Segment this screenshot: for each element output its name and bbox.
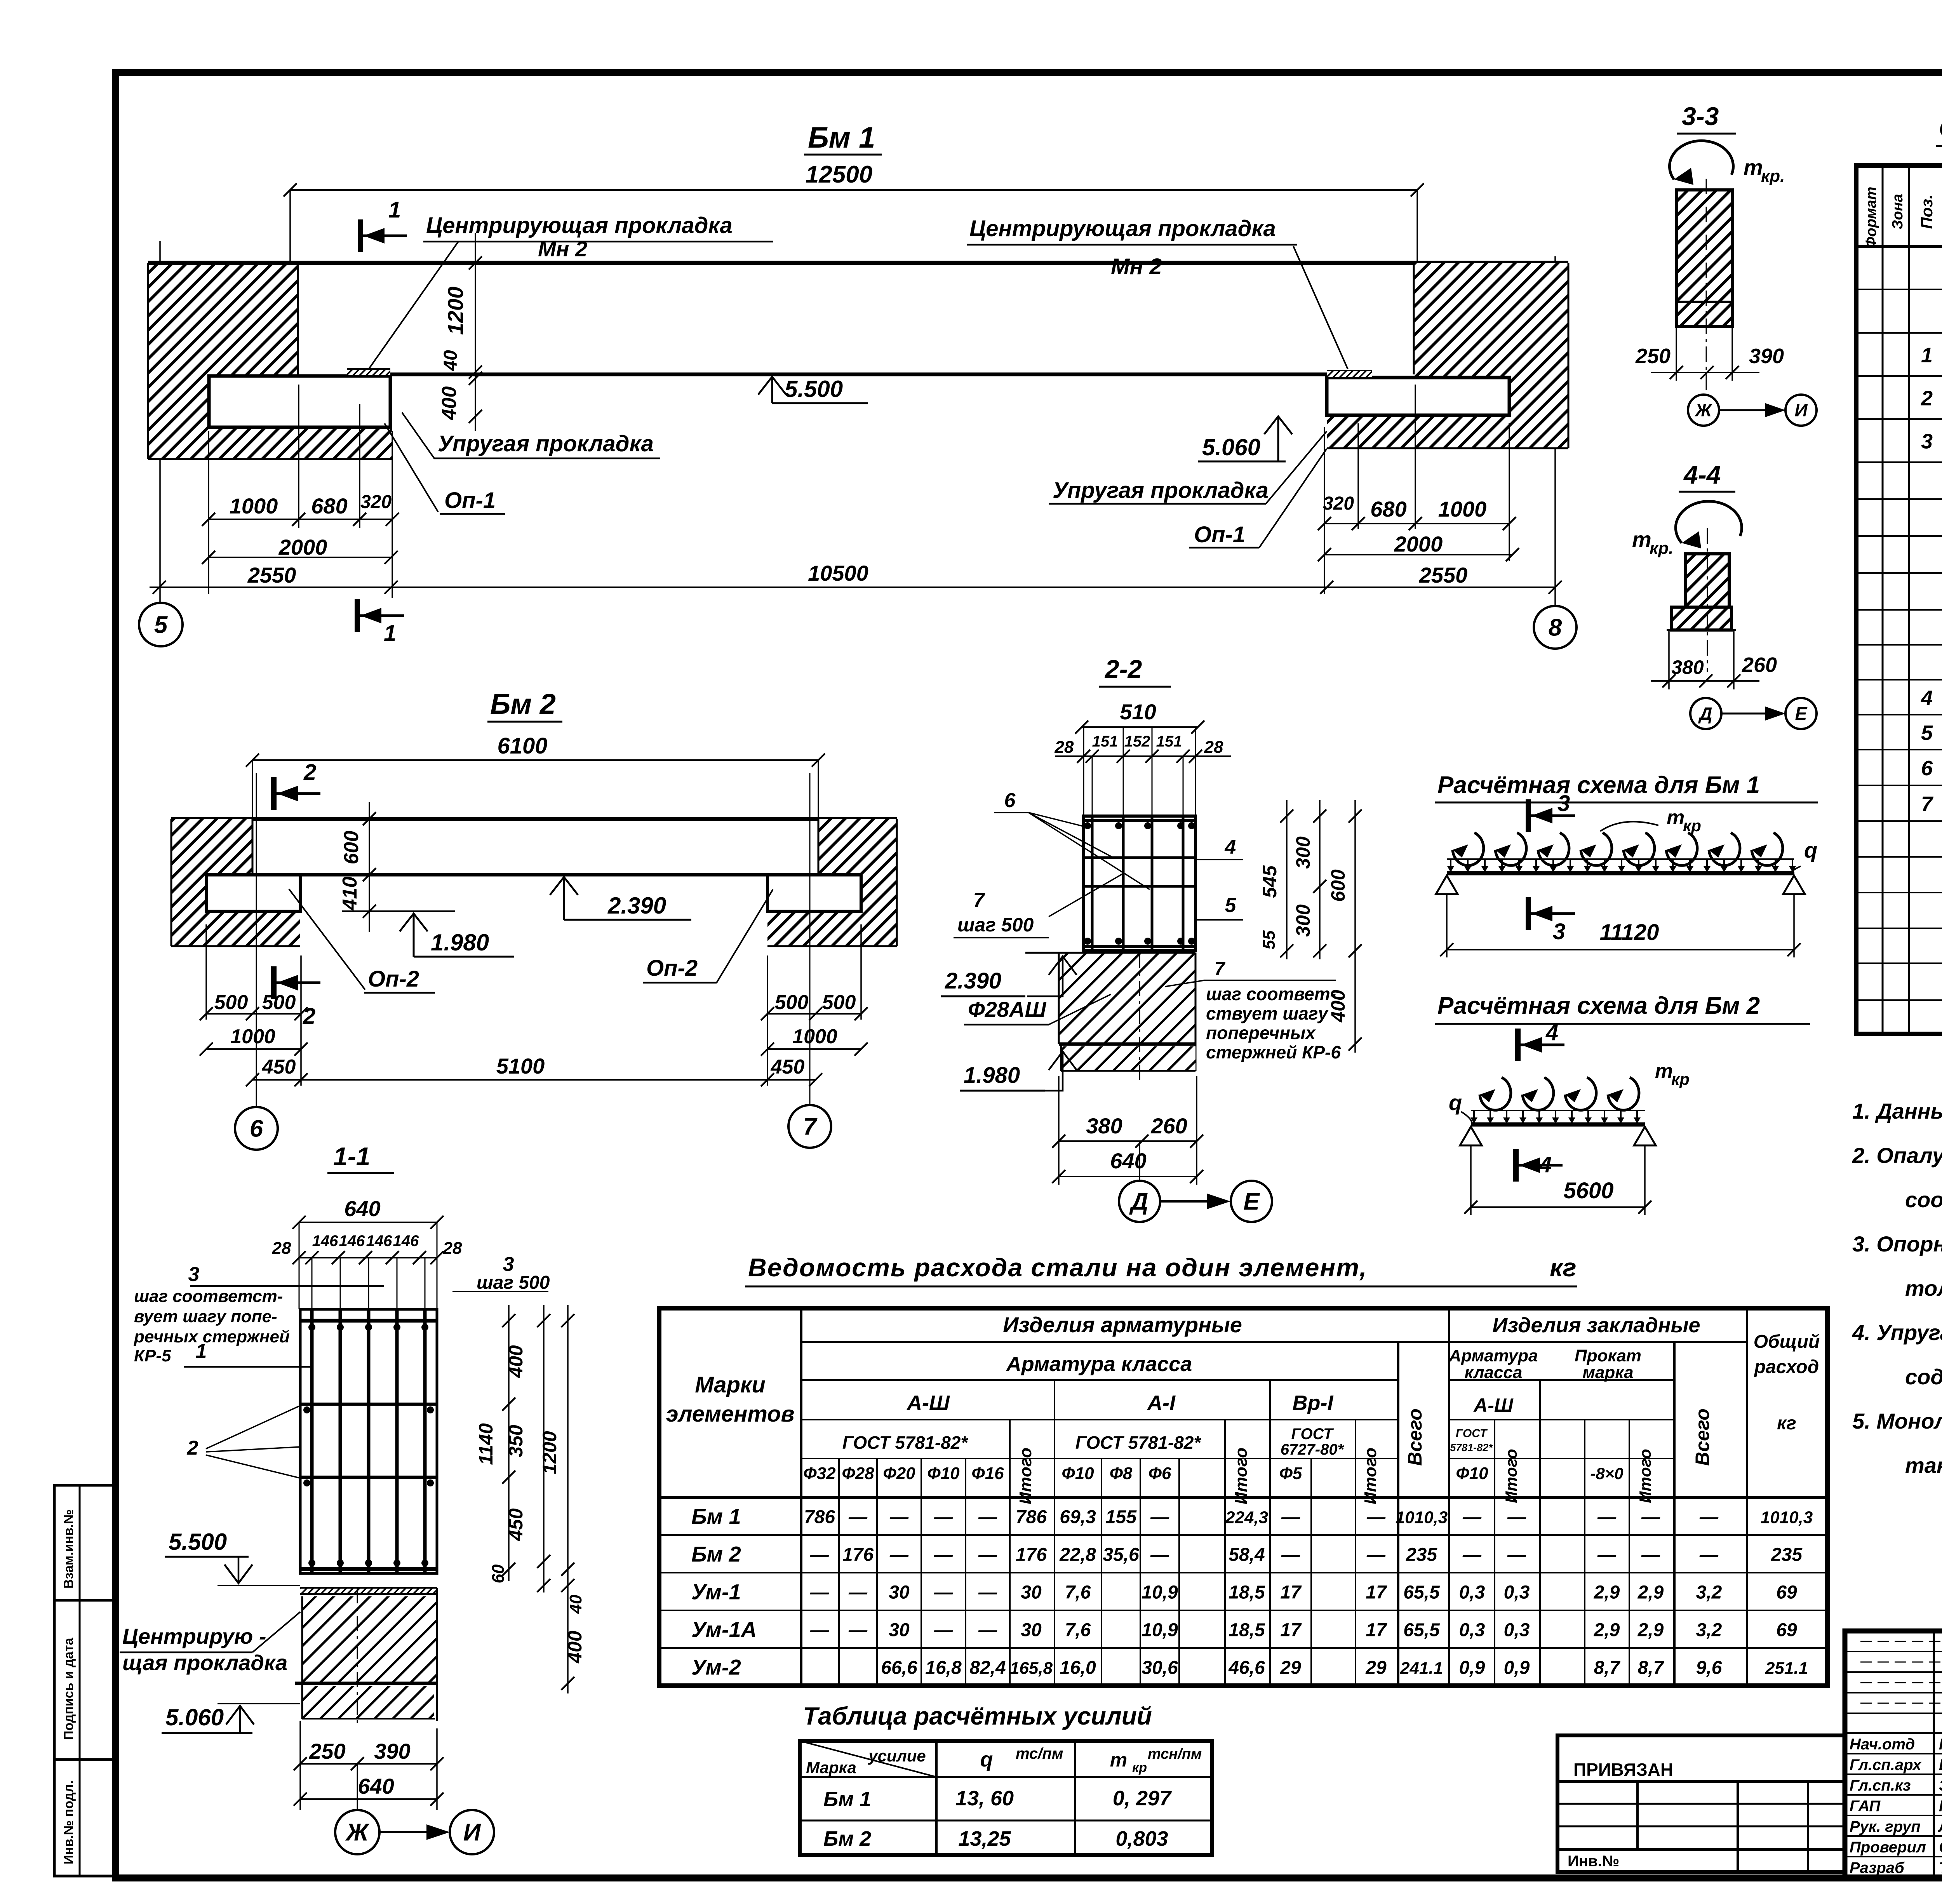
- svg-text:680: 680: [311, 494, 347, 518]
- svg-text:2,9: 2,9: [1637, 1620, 1664, 1641]
- svg-text:Формат: Формат: [1863, 187, 1879, 249]
- svg-text:400: 400: [505, 1345, 527, 1378]
- svg-text:1000: 1000: [1438, 497, 1487, 521]
- svg-text:щая прокладка: щая прокладка: [122, 1650, 287, 1675]
- level mark 5.060 right: [1264, 416, 1292, 434]
- svg-text:Центрирую -: Центрирую -: [122, 1624, 266, 1648]
- beam Бм1 soffit: [347, 372, 1368, 376]
- svg-text:q: q: [1449, 1090, 1462, 1115]
- svg-text:8,7: 8,7: [1638, 1658, 1665, 1678]
- svg-text:кр: кр: [1671, 1070, 1690, 1088]
- svg-text:Е: Е: [1795, 703, 1808, 724]
- svg-text:66,6: 66,6: [881, 1658, 917, 1678]
- svg-text:3,2: 3,2: [1696, 1620, 1722, 1641]
- distributed load band Бм2: [1471, 1110, 1645, 1111]
- support right scheme1: [1783, 875, 1805, 894]
- wall left hatch upper: [148, 263, 298, 376]
- svg-text:2: 2: [303, 760, 316, 785]
- svg-text:5100: 5100: [496, 1054, 545, 1078]
- svg-text:9,6: 9,6: [1696, 1658, 1722, 1678]
- centering pad section 1-1: [300, 1588, 437, 1594]
- beam Бм1 top chord: [148, 261, 1568, 265]
- svg-text:ПРИВЯЗАН: ПРИВЯЗАН: [1573, 1760, 1673, 1780]
- svg-text:элементов: элементов: [666, 1401, 794, 1427]
- svg-text:Ведомость расхода стали на: Ведомость расхода стали на один элемент,: [748, 1253, 1367, 1282]
- svg-text:Ф16: Ф16: [971, 1464, 1004, 1483]
- svg-text:Центрирующая прокладка: Центрирующая прокладка: [969, 216, 1276, 241]
- svg-text:Д: Д: [1698, 703, 1712, 724]
- wall Бм2 right hatch under plate: [767, 911, 861, 946]
- svg-text:30: 30: [889, 1620, 910, 1641]
- svg-text:5: 5: [1921, 721, 1933, 745]
- svg-text:—: —: [1462, 1507, 1482, 1528]
- svg-text:18,5: 18,5: [1229, 1620, 1265, 1641]
- axis line 6: [256, 773, 257, 1106]
- svg-text:—: —: [810, 1582, 829, 1603]
- svg-text:Семенов: Семенов: [1939, 1839, 1942, 1856]
- svg-text:380: 380: [1086, 1114, 1122, 1138]
- svg-text:28: 28: [443, 1239, 462, 1258]
- svg-text:260: 260: [1742, 653, 1777, 677]
- rebar dots: [308, 1324, 315, 1331]
- svg-text:Штейнберг: Штейнберг: [1939, 1756, 1942, 1773]
- svg-text:толщиной 10-12 мм.: толщиной 10-12 мм.: [1905, 1276, 1942, 1300]
- svg-text:16,8: 16,8: [925, 1658, 962, 1678]
- svg-text:176: 176: [1016, 1545, 1047, 1565]
- svg-text:2. Опалубочные, арматурные: 2. Опалубочные, арматурные и бетонные ра…: [1852, 1143, 1942, 1168]
- svg-text:69: 69: [1776, 1620, 1797, 1641]
- svg-text:10,9: 10,9: [1142, 1582, 1178, 1603]
- name rows: [1845, 1753, 1942, 1754]
- svg-text:500: 500: [262, 991, 296, 1014]
- title block small rows: [1845, 1651, 1942, 1652]
- svg-text:5. Монолитные участки Ум-1,: 5. Монолитные участки Ум-1, Ум-1А и Ум-2…: [1852, 1409, 1942, 1433]
- svg-text:65,5: 65,5: [1403, 1582, 1440, 1603]
- svg-text:1: 1: [388, 197, 401, 223]
- svg-text:вует шагу попе-: вует шагу попе-: [134, 1307, 277, 1326]
- svg-text:5.060: 5.060: [165, 1704, 224, 1730]
- moment arrow mkp 3-3: [1670, 141, 1733, 179]
- svg-text:8: 8: [1549, 614, 1562, 641]
- svg-text:—: —: [1281, 1545, 1300, 1565]
- svg-text:2.390: 2.390: [607, 893, 666, 919]
- svg-text:ГОСТ 5781-82*: ГОСТ 5781-82*: [842, 1432, 969, 1453]
- svg-text:Ф32: Ф32: [803, 1464, 836, 1483]
- moment arrow mkp 4-4: [1676, 501, 1742, 543]
- wall Бм2 right hatch upper: [818, 819, 897, 875]
- svg-text:16,0: 16,0: [1060, 1658, 1096, 1678]
- svg-text:3: 3: [1921, 430, 1933, 453]
- support right scheme2: [1634, 1127, 1656, 1145]
- svg-text:—: —: [934, 1545, 953, 1565]
- svg-text:Марки: Марки: [695, 1372, 766, 1398]
- svg-text:-8×0: -8×0: [1590, 1464, 1623, 1483]
- svg-text:марка: марка: [1582, 1363, 1633, 1382]
- vertical dims 600 410: [369, 802, 370, 932]
- svg-text:235: 235: [1771, 1545, 1803, 1565]
- svg-text:410: 410: [339, 877, 361, 911]
- svg-text:кг: кг: [1777, 1413, 1796, 1434]
- svg-text:—: —: [1462, 1545, 1482, 1565]
- left stamp box Подпись и дата: [54, 1600, 115, 1760]
- svg-text:0,9: 0,9: [1459, 1658, 1485, 1678]
- leader to pad left: [368, 242, 458, 370]
- svg-text:3: 3: [1553, 919, 1565, 944]
- svg-text:—: —: [1597, 1545, 1617, 1565]
- svg-text:Ум-1А: Ум-1А: [691, 1617, 757, 1642]
- wall left outline: [147, 263, 149, 459]
- svg-text:Зона: Зона: [1890, 194, 1906, 230]
- svg-text:5.500: 5.500: [169, 1529, 227, 1555]
- dims 545 etc: [1286, 800, 1288, 959]
- right dims 400 350 450 1140 1200: [508, 1305, 510, 1581]
- svg-text:речных стержней: речных стержней: [134, 1327, 290, 1346]
- axis circles Ж И: [357, 1764, 358, 1810]
- svg-text:—: —: [1699, 1507, 1719, 1528]
- svg-text:—: —: [1699, 1545, 1719, 1565]
- svg-text:4: 4: [1225, 836, 1236, 858]
- svg-text:1000: 1000: [230, 1025, 275, 1048]
- svg-text:—: —: [1641, 1545, 1660, 1565]
- svg-text:58,4: 58,4: [1229, 1545, 1265, 1565]
- wall Бм2 left outline: [171, 819, 172, 946]
- svg-text:450: 450: [262, 1056, 296, 1078]
- svg-text:Бм 2: Бм 2: [823, 1827, 871, 1850]
- concrete 2: [1061, 1046, 1195, 1071]
- thick line 2688: [1059, 1043, 1195, 1046]
- support plate Оп-1 right: [1327, 378, 1509, 415]
- wall Бм2 left hatch under plate: [206, 911, 300, 946]
- svg-text:кг: кг: [1550, 1253, 1577, 1282]
- svg-text:250: 250: [1635, 345, 1671, 368]
- svg-text:Центрирующая прокладка: Центрирующая прокладка: [426, 213, 733, 238]
- svg-text:29: 29: [1280, 1658, 1301, 1678]
- svg-text:Поз.: Поз.: [1918, 195, 1936, 229]
- column section 4-4 flange: [1671, 607, 1731, 630]
- svg-text:кр.: кр.: [1650, 539, 1673, 558]
- svg-text:17: 17: [1366, 1582, 1387, 1603]
- svg-text:10500: 10500: [808, 561, 868, 585]
- svg-text:450: 450: [505, 1508, 527, 1541]
- svg-text:320: 320: [1323, 493, 1354, 514]
- svg-text:0,803: 0,803: [1115, 1827, 1168, 1850]
- svg-text:22,8: 22,8: [1059, 1545, 1096, 1565]
- svg-text:3: 3: [1557, 791, 1570, 816]
- svg-text:Вр-I: Вр-I: [1293, 1391, 1334, 1415]
- title block frame: [1845, 1631, 1942, 1878]
- svg-text:4-4: 4-4: [1683, 460, 1721, 489]
- svg-text:300: 300: [1292, 836, 1314, 869]
- svg-text:6: 6: [1004, 789, 1016, 812]
- wall Бм2 right hatch lower: [861, 875, 897, 946]
- svg-text:40: 40: [566, 1594, 585, 1614]
- svg-text:35,6: 35,6: [1103, 1545, 1139, 1565]
- moment curls Бм2: [1480, 1077, 1511, 1110]
- svg-text:ГАП: ГАП: [1850, 1798, 1881, 1815]
- svg-text:Оп-2: Оп-2: [368, 966, 419, 992]
- svg-text:кр: кр: [1132, 1760, 1147, 1775]
- svg-text:640: 640: [358, 1774, 394, 1798]
- svg-text:390: 390: [374, 1739, 410, 1763]
- svg-text:8,7: 8,7: [1594, 1658, 1621, 1678]
- svg-text:ГОСТ: ГОСТ: [1456, 1427, 1488, 1440]
- svg-text:усилие: усилие: [868, 1747, 926, 1765]
- svg-text:0,3: 0,3: [1459, 1582, 1485, 1603]
- svg-text:5: 5: [154, 612, 168, 639]
- svg-text:40: 40: [440, 350, 461, 371]
- svg-text:И: И: [463, 1819, 481, 1846]
- svg-text:3. Опорные плиты укладывать: 3. Опорные плиты укладывать на слое раст…: [1852, 1232, 1942, 1256]
- svg-text:q: q: [1804, 838, 1817, 862]
- svg-text:151: 151: [1156, 733, 1182, 750]
- svg-text:0,3: 0,3: [1504, 1582, 1530, 1603]
- svg-text:2: 2: [187, 1437, 198, 1459]
- axis circle 5: [139, 603, 183, 646]
- svg-text:Ржепишевска: Ржепишевска: [1939, 1798, 1942, 1815]
- axis line 5: [159, 241, 161, 603]
- wall left hatch lower-left: [148, 376, 209, 459]
- svg-text:—: —: [848, 1620, 868, 1641]
- svg-text:Ф5: Ф5: [1279, 1464, 1302, 1483]
- svg-text:кр.: кр.: [1761, 167, 1785, 186]
- svg-text:—: —: [1150, 1545, 1169, 1565]
- svg-text:4: 4: [1921, 686, 1933, 710]
- svg-text:17: 17: [1280, 1582, 1302, 1603]
- svg-text:400: 400: [438, 386, 461, 421]
- section flag 3 bottom scheme: [1526, 897, 1531, 930]
- svg-text:30,6: 30,6: [1142, 1658, 1178, 1678]
- svg-text:300: 300: [1292, 904, 1314, 937]
- svg-text:7: 7: [973, 889, 985, 912]
- concrete block 2: [302, 1686, 434, 1719]
- svg-text:Взам.инв.№: Взам.инв.№: [61, 1509, 76, 1589]
- support plate Оп-1 left: [209, 376, 390, 427]
- svg-text:1010,3: 1010,3: [1396, 1508, 1448, 1527]
- svg-text:7: 7: [803, 1114, 818, 1140]
- section flag 2 top: [271, 777, 277, 810]
- svg-text:содержащих материалов.: содержащих материалов.: [1905, 1364, 1942, 1389]
- svg-text:Ф10: Ф10: [1456, 1464, 1488, 1483]
- arrow Ж to И: [379, 1831, 435, 1833]
- svg-text:7: 7: [1921, 792, 1934, 816]
- svg-text:786: 786: [804, 1507, 835, 1528]
- axis circle 6: [235, 1107, 278, 1150]
- svg-text:1: 1: [384, 621, 396, 646]
- svg-text:7: 7: [1215, 959, 1226, 979]
- wall right outline: [1568, 263, 1570, 448]
- svg-text:Ум-2: Ум-2: [691, 1655, 741, 1679]
- svg-text:Подпись и дата: Подпись и дата: [61, 1637, 76, 1740]
- centerline 2-2: [1139, 953, 1140, 1084]
- svg-text:6100: 6100: [497, 733, 547, 759]
- cage horizontal bars: [300, 1319, 437, 1323]
- centering pad Мн2 left: [347, 369, 390, 375]
- support left scheme1: [1436, 875, 1458, 894]
- svg-text:28: 28: [1055, 738, 1074, 757]
- svg-text:—: —: [934, 1620, 953, 1641]
- svg-text:165,8: 165,8: [1010, 1659, 1053, 1678]
- svg-text:320: 320: [360, 492, 392, 512]
- beam Бм2 soffit: [206, 873, 861, 877]
- svg-text:Гл.сп.кз: Гл.сп.кз: [1850, 1777, 1911, 1794]
- svg-text:Расчётная схема для Бм 2: Расчётная схема для Бм 2: [1437, 992, 1760, 1019]
- svg-text:250: 250: [309, 1739, 345, 1763]
- axis circle 7: [788, 1105, 831, 1148]
- svg-text:—: —: [848, 1582, 868, 1603]
- axis line 8: [1554, 256, 1556, 605]
- svg-text:—: —: [889, 1545, 909, 1565]
- svg-text:Нач.отд: Нач.отд: [1850, 1736, 1915, 1753]
- svg-text:Спецификация монолитных бало: Спецификация монолитных балок: [1939, 115, 1942, 142]
- centering pad Мн2 right: [1327, 371, 1372, 377]
- svg-text:Бм 2: Бм 2: [691, 1542, 741, 1566]
- svg-text:241.1: 241.1: [1400, 1659, 1443, 1678]
- svg-text:1200: 1200: [539, 1431, 560, 1474]
- svg-text:Оп-2: Оп-2: [646, 955, 698, 981]
- axis circles Д Е section 2-2: [1139, 1141, 1140, 1182]
- svg-text:m: m: [1667, 806, 1684, 829]
- svg-text:класса: класса: [1465, 1363, 1523, 1382]
- axis circles Ж И 3-3: [1688, 395, 1719, 426]
- support plate Оп-2 left: [206, 875, 300, 911]
- svg-text:Ж: Ж: [345, 1819, 370, 1846]
- svg-text:18,5: 18,5: [1229, 1582, 1265, 1603]
- svg-text:151: 151: [1092, 733, 1118, 750]
- svg-text:12500: 12500: [806, 161, 872, 188]
- svg-text:—: —: [810, 1545, 829, 1565]
- svg-text:69,3: 69,3: [1060, 1507, 1096, 1528]
- svg-text:—: —: [1366, 1507, 1386, 1528]
- svg-text:m: m: [1632, 527, 1651, 552]
- svg-text:5600: 5600: [1563, 1178, 1613, 1203]
- svg-text:—: —: [978, 1582, 997, 1603]
- svg-text:1140: 1140: [475, 1423, 497, 1465]
- moment curls Бм1: [1453, 833, 1484, 865]
- support left scheme2: [1460, 1127, 1482, 1145]
- section flag 1 top: [358, 219, 363, 252]
- vedomost frame: [659, 1308, 1827, 1686]
- svg-text:Изделия арматурные: Изделия арматурные: [1003, 1312, 1242, 1337]
- svg-text:Арматура: Арматура: [1449, 1346, 1538, 1365]
- svg-text:Разраб: Разраб: [1850, 1859, 1905, 1876]
- beam line Бм1 scheme: [1447, 871, 1794, 875]
- svg-text:2: 2: [303, 1004, 315, 1029]
- svg-text:30: 30: [1021, 1620, 1042, 1641]
- svg-text:m: m: [1110, 1749, 1127, 1771]
- svg-text:—: —: [1366, 1545, 1386, 1565]
- svg-text:Мн 2: Мн 2: [538, 237, 587, 261]
- svg-text:500: 500: [214, 991, 248, 1014]
- svg-text:235: 235: [1406, 1545, 1437, 1565]
- svg-text:6: 6: [250, 1116, 263, 1142]
- svg-text:Таблица расчётных усилий: Таблица расчётных усилий: [803, 1702, 1152, 1730]
- svg-text:0,3: 0,3: [1504, 1620, 1530, 1641]
- svg-text:—: —: [889, 1507, 909, 1528]
- svg-text:680: 680: [1370, 497, 1406, 521]
- svg-text:—: —: [978, 1620, 997, 1641]
- svg-text:ствует шагу: ствует шагу: [1206, 1003, 1329, 1023]
- svg-text:Итого: Итого: [1502, 1449, 1520, 1503]
- svg-text:шаг 500: шаг 500: [477, 1272, 550, 1293]
- concrete block under pad: [302, 1596, 436, 1683]
- svg-text:28: 28: [272, 1239, 291, 1258]
- svg-text:5: 5: [1225, 894, 1237, 917]
- svg-text:Ф20: Ф20: [883, 1464, 915, 1483]
- svg-text:Общий: Общий: [1754, 1331, 1820, 1352]
- svg-text:1: 1: [196, 1340, 207, 1363]
- svg-text:7,6: 7,6: [1065, 1620, 1091, 1641]
- axis line 7: [809, 773, 811, 1104]
- svg-text:5.060: 5.060: [1202, 434, 1260, 460]
- svg-text:545: 545: [1259, 865, 1281, 898]
- usiliy diag header: [800, 1741, 936, 1777]
- wall right hatch upper: [1414, 263, 1568, 378]
- svg-text:расход: расход: [1754, 1357, 1819, 1377]
- svg-text:—: —: [934, 1507, 953, 1528]
- vedomost horizontals: [801, 1341, 1747, 1343]
- svg-text:Ж: Ж: [1695, 400, 1713, 420]
- thick line 4334: [295, 1682, 437, 1685]
- svg-text:17: 17: [1280, 1620, 1302, 1641]
- svg-text:кр: кр: [1683, 816, 1701, 835]
- wall Бм2 left hatch upper: [171, 819, 252, 875]
- svg-text:Захарченко: Захарченко: [1939, 1777, 1942, 1794]
- svg-text:2000: 2000: [278, 535, 327, 559]
- section flag 4 bottom scheme2: [1513, 1149, 1519, 1182]
- svg-text:—: —: [978, 1507, 997, 1528]
- svg-text:КР-5: КР-5: [134, 1346, 171, 1365]
- vertical dim 1200/40/400: [475, 233, 476, 431]
- svg-text:И: И: [1794, 400, 1808, 420]
- section flag 2 bottom: [271, 966, 277, 999]
- svg-text:2.390: 2.390: [945, 968, 1001, 994]
- svg-text:А-Ш: А-Ш: [1473, 1394, 1514, 1416]
- svg-text:152: 152: [1124, 733, 1150, 750]
- svg-text:Прокат: Прокат: [1575, 1346, 1641, 1365]
- svg-text:2550: 2550: [1419, 563, 1468, 587]
- svg-text:Тушко: Тушко: [1939, 1859, 1942, 1876]
- svg-text:13,25: 13,25: [958, 1827, 1011, 1850]
- beam line Бм2 scheme: [1471, 1123, 1645, 1127]
- svg-text:Мн 2: Мн 2: [1111, 254, 1162, 279]
- svg-text:Всего: Всего: [1404, 1408, 1426, 1466]
- svg-text:—: —: [1507, 1545, 1526, 1565]
- left stamp box Взам.инв.№: [54, 1485, 115, 1600]
- svg-text:400: 400: [564, 1631, 586, 1664]
- svg-text:2: 2: [1921, 387, 1933, 410]
- svg-text:—: —: [1150, 1507, 1169, 1528]
- svg-text:1200: 1200: [443, 287, 468, 335]
- svg-text:146: 146: [393, 1232, 419, 1250]
- svg-text:146: 146: [339, 1232, 365, 1250]
- wall Бм2 right outline: [896, 819, 898, 946]
- svg-text:4: 4: [1545, 1020, 1558, 1045]
- svg-text:1000: 1000: [792, 1025, 837, 1048]
- spec table header row: [1856, 245, 1942, 248]
- rebar cage section 1-1: [300, 1309, 437, 1573]
- centerline section 1-1: [357, 1588, 358, 1726]
- svg-text:1.980: 1.980: [964, 1063, 1020, 1088]
- svg-text:786: 786: [1016, 1507, 1047, 1528]
- svg-text:2-2: 2-2: [1104, 654, 1142, 683]
- beam Бм2 top chord: [171, 817, 897, 821]
- svg-text:Изделия закладные: Изделия закладные: [1492, 1314, 1700, 1337]
- svg-text:510: 510: [1120, 700, 1156, 724]
- title block verticals: [1933, 1631, 1935, 1878]
- svg-text:3-3: 3-3: [1682, 102, 1719, 131]
- svg-text:7,6: 7,6: [1065, 1582, 1091, 1603]
- svg-text:Оп-1: Оп-1: [444, 488, 496, 513]
